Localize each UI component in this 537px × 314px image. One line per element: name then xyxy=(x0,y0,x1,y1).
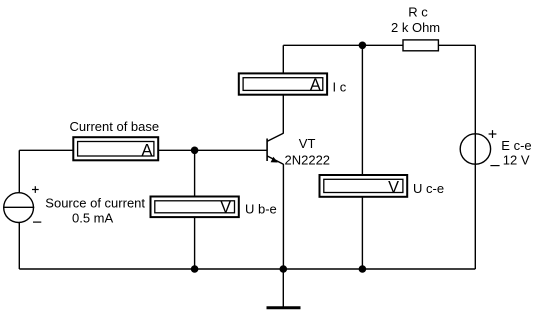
svg-text:Current of base: Current of base xyxy=(70,119,160,134)
svg-text:0.5 mA: 0.5 mA xyxy=(72,211,114,226)
svg-text:U c-e: U c-e xyxy=(413,181,444,196)
wire collector vertical (through ammeter Ic) xyxy=(282,45,284,133)
wire emitter vertical xyxy=(282,164,284,269)
svg-text:U b-e: U b-e xyxy=(245,201,277,216)
wire right rail (through source E c-e) xyxy=(474,45,476,269)
node bus junction right xyxy=(359,265,367,273)
node collector top junction xyxy=(359,42,367,50)
wire left rail xyxy=(18,150,20,269)
voltage source E c-e xyxy=(460,130,499,166)
svg-text:I c: I c xyxy=(333,79,347,94)
svg-text:2N2222: 2N2222 xyxy=(285,152,331,167)
voltmeter V2 (U c-e) xyxy=(320,175,408,197)
voltmeter V1 (U b-e) xyxy=(151,197,239,218)
svg-text:V: V xyxy=(220,198,231,216)
wire top horizontal (collector node to Rc and right rail) xyxy=(283,44,475,46)
svg-text:2 k Ohm: 2 k Ohm xyxy=(391,20,440,35)
ammeter A2 (Ic) xyxy=(239,73,327,94)
svg-text:E c-e: E c-e xyxy=(501,138,531,153)
svg-text:A: A xyxy=(310,76,321,94)
resistor Rc xyxy=(403,40,438,51)
node bus junction center xyxy=(280,265,288,273)
svg-text:A: A xyxy=(142,141,153,159)
node base junction xyxy=(191,147,199,155)
svg-text:R c: R c xyxy=(408,5,428,20)
svg-text:Source of current: Source of current xyxy=(45,195,145,210)
wire base horizontal xyxy=(19,149,267,151)
node bus junction left xyxy=(191,265,199,273)
transistor VT 2N2222 xyxy=(267,133,283,164)
wire bottom bus xyxy=(19,268,475,270)
ground xyxy=(267,306,301,309)
svg-text:VT: VT xyxy=(299,136,316,151)
svg-text:V: V xyxy=(388,178,399,196)
current source I1 (Source of current 0.5 mA) xyxy=(3,186,41,222)
wire U c-e branch vertical xyxy=(361,45,363,269)
wire ground stub xyxy=(282,269,284,307)
ammeter A1 (Current of base) xyxy=(73,137,158,160)
svg-text:12 V: 12 V xyxy=(503,152,530,167)
wire U b-e branch vertical xyxy=(194,150,196,269)
